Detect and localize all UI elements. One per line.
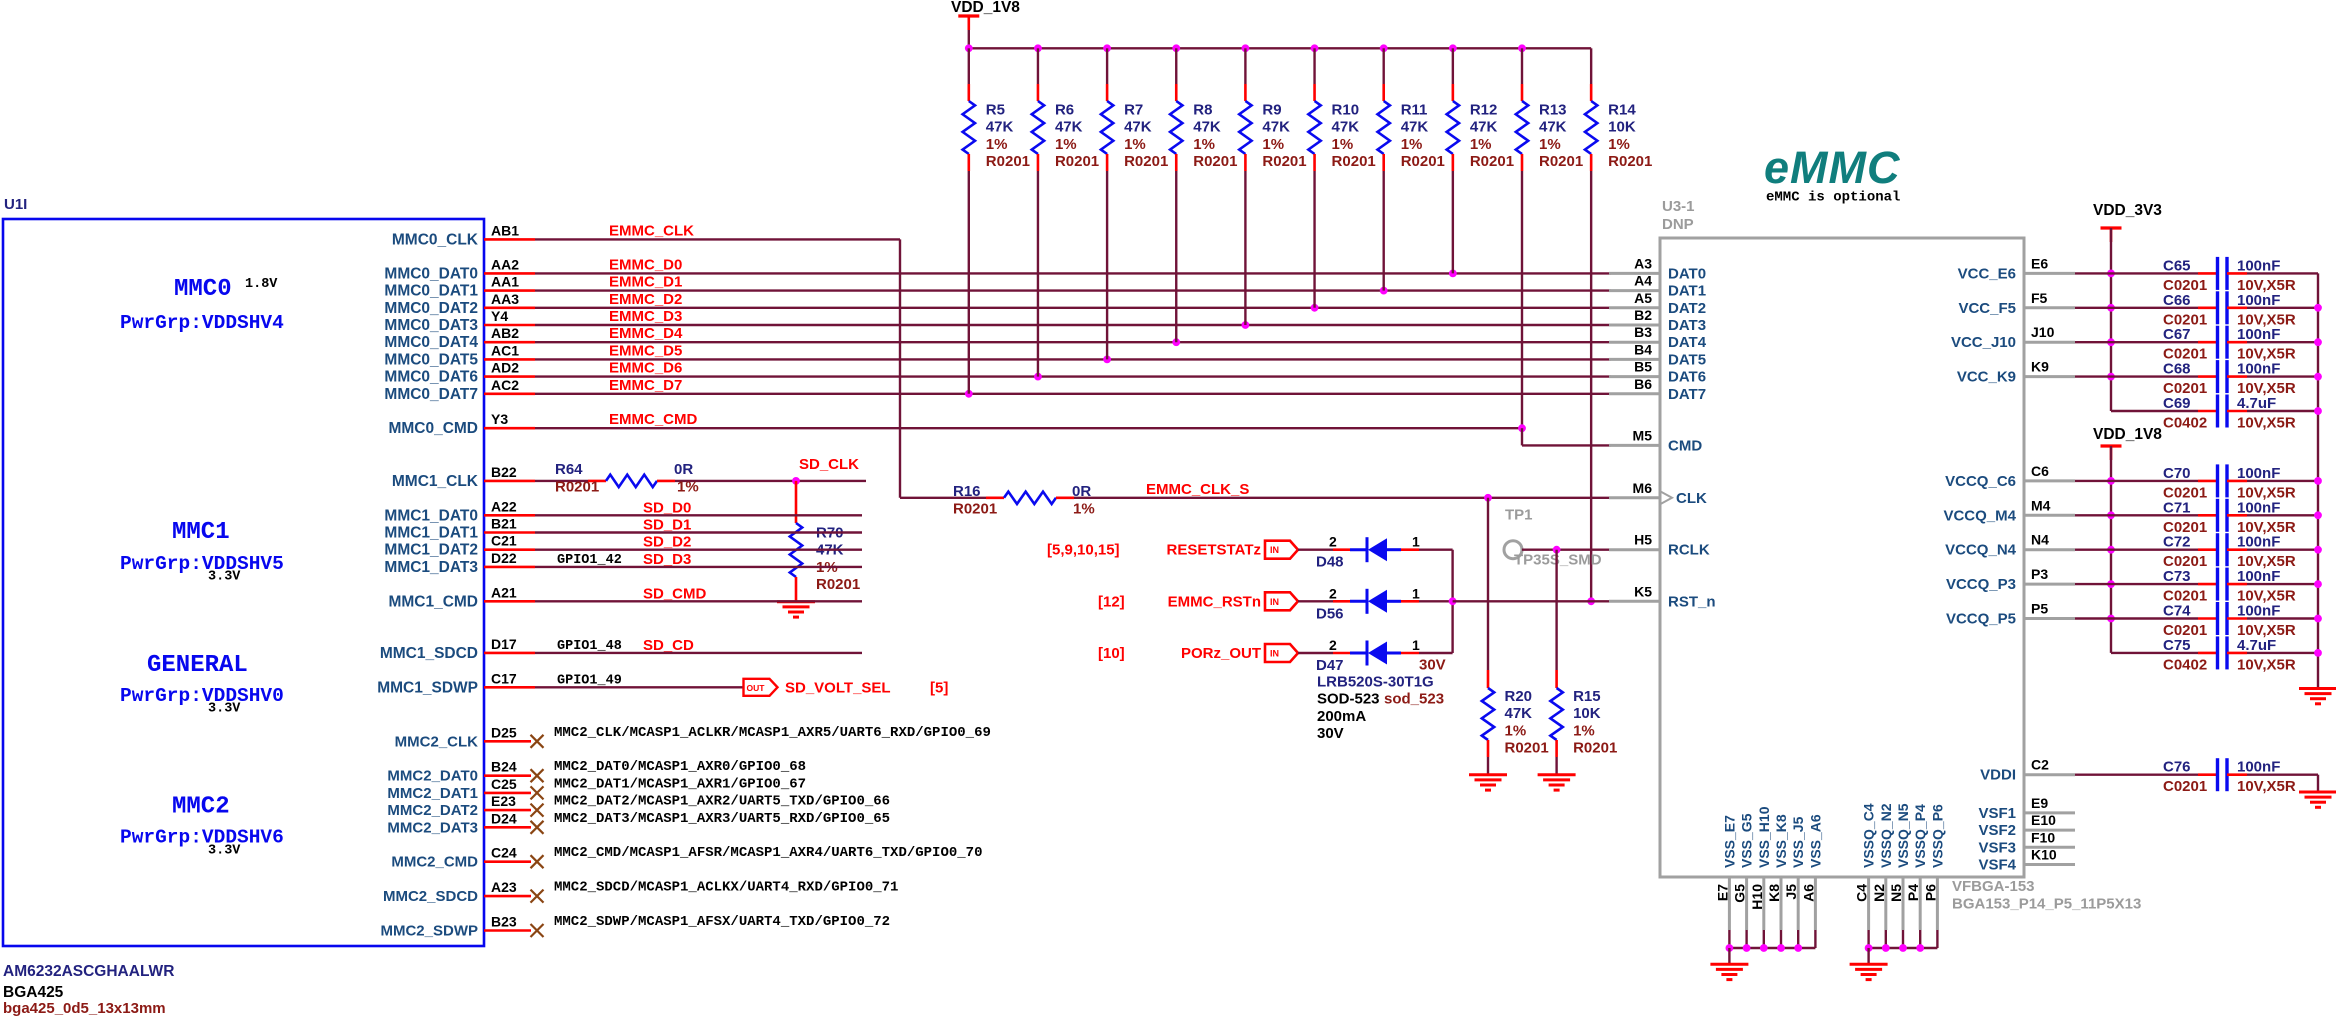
svg-text:MMC1_SDCD: MMC1_SDCD — [380, 645, 478, 662]
resistor R15 body — [1550, 688, 1562, 740]
svg-text:10V,X5R: 10V,X5R — [2237, 778, 2296, 795]
resistor R8 upper lead — [1175, 48, 1177, 84]
wire VDDI to C76 — [2075, 774, 2198, 776]
junction VDD_1V8 bus at C72 — [2107, 546, 2115, 554]
svg-text:MMC1: MMC1 — [172, 519, 230, 546]
wire pin to C73 — [2075, 583, 2111, 585]
U3 pin M6 CLK stub — [1609, 496, 1660, 499]
capacitor C72 — [2216, 533, 2219, 566]
no-connect X on MMC2_D0 — [531, 769, 544, 782]
junction VDD rail at R5 — [965, 44, 973, 52]
capacitor C67 — [2216, 326, 2219, 359]
no-connect X on MMC2_D3 — [531, 821, 544, 834]
svg-text:DAT0: DAT0 — [1668, 265, 1706, 282]
wire bus to capacitor C70 — [2111, 480, 2198, 482]
capacitor C72 right lead — [2227, 548, 2247, 551]
resistor R14 lower lead — [1590, 154, 1593, 171]
resistor R64 left lead — [588, 480, 606, 483]
wire pin to C67 — [2075, 341, 2111, 343]
svg-text:1%: 1% — [1539, 136, 1561, 153]
svg-text:R6: R6 — [1055, 102, 1074, 119]
resistor R10 lower lead — [1313, 154, 1316, 171]
junction EMMC_D3 to pull-up — [1242, 321, 1250, 329]
U3 pin B4 DAT5 stub — [1609, 358, 1660, 361]
svg-text:100nF: 100nF — [2237, 292, 2280, 309]
ground for VSS pins — [1710, 963, 1748, 966]
svg-text:RST_n: RST_n — [1668, 593, 1716, 610]
U3 pin E7 VSS_E7 stub — [1728, 877, 1731, 930]
svg-text:R5: R5 — [986, 102, 1005, 119]
wire EMMC_D7 — [535, 393, 1611, 395]
svg-text:PwrGrp:VDDSHV5: PwrGrp:VDDSHV5 — [120, 553, 284, 575]
U1 pin AC2 MMC0_DAT7 stub — [484, 392, 535, 395]
svg-text:1%: 1% — [1608, 136, 1630, 153]
svg-text:SD_CLK: SD_CLK — [799, 456, 859, 473]
svg-text:F10: F10 — [2031, 829, 2055, 845]
junction ground bus — [2314, 338, 2322, 346]
svg-text:CMD: CMD — [1668, 437, 1702, 454]
svg-text:VCC_K9: VCC_K9 — [1957, 369, 2016, 386]
svg-text:C0402: C0402 — [2163, 656, 2207, 673]
resistor R9 body — [1239, 101, 1251, 154]
svg-text:eMMC: eMMC — [1764, 142, 1901, 193]
capacitor C68 right lead — [2227, 375, 2247, 378]
junction SD_CLK at R70 — [792, 477, 800, 485]
resistor R7 body — [1101, 101, 1113, 154]
svg-text:B24: B24 — [491, 759, 517, 775]
svg-text:E6: E6 — [2031, 255, 2048, 271]
wire EMMC_CLK horizontal — [535, 238, 900, 240]
junction VSS bus — [1760, 944, 1768, 952]
svg-text:AD2: AD2 — [491, 360, 519, 376]
diode D47 cathode wire — [1401, 652, 1419, 655]
svg-text:1: 1 — [1412, 534, 1420, 550]
U1 pin C21 MMC1_DAT2 stub — [484, 548, 535, 551]
capacitor C70 right lead — [2227, 480, 2247, 483]
junction EMMC_D6 to pull-up — [1034, 373, 1042, 381]
junction ground bus — [2314, 615, 2322, 623]
wire VSSQ bus to ground — [1867, 948, 1869, 964]
U1 pin C24 MMC2_CMD stub — [484, 860, 531, 863]
U1 pin A21 MMC1_CMD stub — [484, 600, 535, 603]
wire pin to C72 — [2075, 549, 2111, 551]
svg-text:C65: C65 — [2163, 257, 2191, 274]
wire diode cathode bus vertical — [1451, 550, 1453, 653]
wire SD_CMD — [535, 600, 862, 602]
svg-text:1%: 1% — [1193, 136, 1215, 153]
svg-text:AA1: AA1 — [491, 274, 519, 290]
wire SD_D1 — [535, 531, 862, 533]
U3 pin E9 VSF1 stub — [2024, 811, 2075, 814]
svg-text:CLK: CLK — [1676, 490, 1707, 507]
U3 pin P5 VCCQ_P5 stub — [2024, 617, 2075, 620]
svg-text:100nF: 100nF — [2237, 326, 2280, 343]
svg-text:TP1: TP1 — [1505, 506, 1533, 523]
svg-text:R7: R7 — [1124, 102, 1143, 119]
ground below C76 — [2299, 791, 2336, 794]
wire VDD_1V8 rail — [969, 47, 1591, 49]
U3 pin C2 VDDI stub — [2024, 773, 2075, 776]
capacitor C68 — [2216, 360, 2219, 393]
wire EMMC_D1 — [535, 289, 1611, 291]
svg-text:30V: 30V — [1419, 657, 1446, 674]
svg-text:MMC2_DAT0: MMC2_DAT0 — [387, 768, 478, 785]
svg-text:47K: 47K — [1262, 119, 1290, 136]
svg-text:H10: H10 — [1749, 884, 1765, 910]
junction EMMC_D1 to pull-up — [1380, 287, 1388, 295]
svg-text:100nF: 100nF — [2237, 499, 2280, 516]
svg-text:EMMC_CLK: EMMC_CLK — [609, 222, 694, 239]
svg-text:N4: N4 — [2031, 532, 2049, 548]
wire R13 to M5 pin — [1521, 428, 1523, 445]
U3 pin P3 VCCQ_P3 stub — [2024, 583, 2075, 586]
wire SD_CD — [535, 652, 862, 654]
svg-text:10K: 10K — [1573, 705, 1601, 722]
port SD_VOLT_SEL (OUT) — [744, 679, 778, 696]
port D47 input flag — [1265, 644, 1298, 662]
svg-text:EMMC_D3: EMMC_D3 — [609, 308, 682, 325]
svg-text:LRB520S-30T1G: LRB520S-30T1G — [1317, 674, 1434, 691]
resistor R13 lower lead — [1521, 154, 1524, 171]
junction VDD rail at R8 — [1172, 44, 1180, 52]
U3 pin A3 DAT0 stub — [1609, 272, 1660, 275]
resistor R7 lower lead — [1106, 154, 1109, 171]
svg-text:VSF2: VSF2 — [1978, 822, 2016, 839]
svg-text:K9: K9 — [2031, 359, 2049, 375]
svg-text:1%: 1% — [1573, 722, 1595, 739]
svg-text:DAT6: DAT6 — [1668, 369, 1706, 386]
resistor R64 right lead — [657, 480, 675, 483]
svg-text:[10]: [10] — [1098, 645, 1125, 662]
junction VDD_3V3 bus at C67 — [2107, 338, 2115, 346]
junction ground bus — [2314, 649, 2322, 657]
junction EMMC_D0 to pull-up — [1449, 270, 1457, 278]
svg-text:E7: E7 — [1714, 884, 1730, 901]
svg-text:R0201: R0201 — [1608, 153, 1652, 170]
VDD_3V3 vertical bus — [2110, 273, 2112, 411]
wire bus to capacitor C72 — [2111, 549, 2198, 551]
no-connect X on MMC2_CLK — [531, 735, 544, 748]
wire pin to C74 — [2075, 617, 2111, 619]
svg-text:C6: C6 — [2031, 463, 2049, 479]
svg-text:SD_CMD: SD_CMD — [643, 585, 707, 602]
svg-text:100nF: 100nF — [2237, 759, 2280, 776]
resistor R12 upper lead — [1452, 48, 1454, 84]
U1 pin A22 MMC1_DAT0 stub — [484, 514, 535, 517]
svg-text:200mA: 200mA — [1317, 708, 1366, 725]
svg-text:MMC0_DAT6: MMC0_DAT6 — [384, 369, 478, 386]
resistor R12 body — [1447, 101, 1459, 154]
resistor R7 upper lead — [1106, 48, 1108, 84]
svg-text:R0201: R0201 — [1573, 740, 1617, 757]
svg-text:VSSQ_P6: VSSQ_P6 — [1929, 804, 1945, 868]
svg-text:MMC1_CMD: MMC1_CMD — [388, 593, 478, 610]
wire EMMC_D2 — [535, 307, 1611, 309]
right ground return bus — [2317, 273, 2319, 688]
resistor R70 lower lead — [795, 577, 798, 601]
wire MMC1_SDWP to OUT port — [535, 686, 744, 688]
U1 pin C17 MMC1_SDWP stub — [484, 686, 535, 689]
U3 pin P4 VSSQ_P4 stub — [1919, 877, 1922, 930]
svg-text:DAT7: DAT7 — [1668, 386, 1706, 403]
svg-text:30V: 30V — [1317, 725, 1344, 742]
svg-text:1%: 1% — [677, 478, 699, 495]
svg-text:0R: 0R — [1072, 483, 1091, 500]
svg-text:MMC1_SDWP: MMC1_SDWP — [377, 679, 478, 696]
svg-text:A3: A3 — [1634, 255, 1652, 271]
svg-text:R10: R10 — [1332, 102, 1360, 119]
junction EMMC_D7 to pull-up — [965, 390, 973, 398]
svg-text:47K: 47K — [1124, 119, 1152, 136]
resistor R8 lower lead — [1175, 154, 1178, 171]
diode D47 — [1366, 641, 1369, 666]
resistor R11 upper lead — [1382, 48, 1384, 84]
U1 pin AB1 MMC0_CLK stub — [484, 238, 535, 241]
svg-text:VCCQ_M4: VCCQ_M4 — [1943, 507, 2016, 524]
resistor R20 lower lead — [1487, 740, 1490, 757]
svg-text:3.3V: 3.3V — [208, 843, 241, 858]
capacitor C65 — [2216, 257, 2219, 290]
junction ground bus — [2314, 407, 2322, 415]
svg-text:B4: B4 — [1634, 341, 1652, 357]
svg-text:VSS_G5: VSS_G5 — [1739, 813, 1755, 868]
U3 pin K9 VCC_K9 stub — [2024, 375, 2075, 378]
U1 pin AA1 MMC0_DAT1 stub — [484, 289, 535, 292]
resistor R9 lower lead — [1244, 154, 1247, 171]
svg-text:R16: R16 — [953, 483, 981, 500]
capacitor C71 right lead — [2227, 514, 2247, 517]
svg-text:R0201: R0201 — [1401, 153, 1445, 170]
wire VSS bus to ground — [1728, 948, 1730, 964]
svg-text:BGA153_P14_P5_11P5X13: BGA153_P14_P5_11P5X13 — [1952, 896, 2141, 913]
wire EMMC_D3 — [535, 324, 1611, 326]
U3 pin N4 VCCQ_N4 stub — [2024, 548, 2075, 551]
U3 pin C4 VSSQ_C4 stub — [1867, 877, 1870, 930]
svg-text:P4: P4 — [1905, 884, 1921, 901]
svg-text:EMMC_D7: EMMC_D7 — [609, 377, 682, 394]
svg-text:P6: P6 — [1922, 884, 1938, 901]
svg-text:DNP: DNP — [1662, 216, 1694, 233]
svg-text:VSSQ_N5: VSSQ_N5 — [1895, 803, 1911, 868]
svg-text:2: 2 — [1329, 637, 1337, 653]
svg-text:GPIO1_42: GPIO1_42 — [557, 553, 622, 568]
capacitor C73 — [2216, 568, 2219, 601]
VSS ground bus — [1729, 947, 1815, 949]
junction EMMC_D2 to pull-up — [1311, 304, 1319, 312]
U3 pin F10 VSF3 stub — [2024, 846, 2075, 849]
U1 pin AC1 MMC0_DAT5 stub — [484, 358, 535, 361]
svg-text:MMC2_SDWP/MCASP1_AFSX/UART4_TX: MMC2_SDWP/MCASP1_AFSX/UART4_TXD/GPIO0_72 — [554, 914, 890, 930]
junction RCLK at R15 — [1553, 546, 1561, 554]
svg-text:2: 2 — [1329, 534, 1337, 550]
svg-text:47K: 47K — [1539, 119, 1567, 136]
svg-text:E9: E9 — [2031, 795, 2048, 811]
wire R64 to SD_CLK — [675, 480, 866, 482]
resistor R6 upper lead — [1037, 48, 1039, 84]
wire bus to capacitor C71 — [2111, 514, 2198, 516]
diode D48 cathode wire — [1401, 548, 1419, 551]
svg-text:R64: R64 — [555, 461, 583, 478]
wire SD_D3 — [535, 566, 862, 568]
wire bus to capacitor C73 — [2111, 583, 2198, 585]
svg-text:VSSQ_P4: VSSQ_P4 — [1912, 804, 1928, 868]
resistor R6 lower lead — [1037, 154, 1040, 171]
capacitor C75 right lead — [2227, 652, 2247, 655]
svg-text:4.7uF: 4.7uF — [2237, 395, 2276, 412]
resistor R10 upper lead — [1313, 48, 1315, 84]
svg-text:R0201: R0201 — [1505, 740, 1549, 757]
no-connect X on MMC2_CMD — [531, 855, 544, 868]
svg-text:R0201: R0201 — [1470, 153, 1514, 170]
svg-text:2: 2 — [1329, 585, 1337, 601]
svg-text:MMC0_DAT7: MMC0_DAT7 — [384, 386, 478, 403]
svg-text:U1I: U1I — [4, 196, 27, 213]
junction ground bus — [2314, 511, 2322, 519]
resistor R64 body — [606, 475, 657, 487]
wire EMMC_CLK vertical drop to EMMC_CLK_S — [899, 239, 901, 497]
svg-text:D17: D17 — [491, 636, 517, 652]
U1 pin D25 MMC2_CLK stub — [484, 740, 531, 743]
capacitor C75 — [2216, 636, 2219, 669]
svg-text:VSS_E7: VSS_E7 — [1721, 815, 1737, 868]
svg-text:AC1: AC1 — [491, 342, 519, 358]
svg-text:MMC0_DAT3: MMC0_DAT3 — [384, 317, 478, 334]
U3 CLK clock-input triangle — [1661, 492, 1672, 504]
svg-text:R0201: R0201 — [555, 478, 599, 495]
junction EMMC_D4 to pull-up — [1172, 338, 1180, 346]
wire pin to C70 — [2075, 480, 2111, 482]
junction VDD rail at R6 — [1034, 44, 1042, 52]
svg-text:AB2: AB2 — [491, 325, 519, 341]
svg-text:F5: F5 — [2031, 290, 2048, 306]
wire TP1 to RCLK pin — [1522, 549, 1611, 551]
svg-text:IN: IN — [1270, 545, 1279, 555]
svg-text:A6: A6 — [1800, 884, 1816, 902]
U3 pin E10 VSF2 stub — [2024, 829, 2075, 832]
U3 pin K8 VSS_K8 stub — [1780, 877, 1783, 930]
resistor R16 body — [1004, 492, 1056, 504]
svg-text:MMC2_DAT2/MCASP1_AXR2/UART5_TX: MMC2_DAT2/MCASP1_AXR2/UART5_TXD/GPIO0_66 — [554, 794, 890, 810]
svg-text:MMC0_DAT2: MMC0_DAT2 — [384, 300, 478, 317]
svg-text:M5: M5 — [1633, 427, 1653, 443]
svg-text:D47: D47 — [1316, 657, 1344, 674]
svg-text:100nF: 100nF — [2237, 257, 2280, 274]
svg-text:D48: D48 — [1316, 554, 1344, 571]
U3 pin E6 VCC_E6 stub — [2024, 272, 2075, 275]
svg-text:K10: K10 — [2031, 847, 2057, 863]
svg-text:C67: C67 — [2163, 326, 2191, 343]
svg-text:10K: 10K — [1608, 119, 1636, 136]
U1 pin D17 MMC1_SDCD stub — [484, 652, 535, 655]
svg-text:AM6232ASCGHAALWR: AM6232ASCGHAALWR — [3, 963, 174, 980]
svg-text:AA2: AA2 — [491, 256, 519, 272]
svg-text:B22: B22 — [491, 464, 517, 480]
svg-text:C72: C72 — [2163, 534, 2191, 551]
junction VDD_1V8 bus at C70 — [2107, 477, 2115, 485]
svg-text:10V,X5R: 10V,X5R — [2237, 656, 2296, 673]
resistor R15 upper lead — [1555, 550, 1557, 670]
svg-text:C76: C76 — [2163, 759, 2191, 776]
svg-text:D22: D22 — [491, 550, 517, 566]
svg-text:D25: D25 — [491, 724, 517, 740]
svg-text:EMMC_D5: EMMC_D5 — [609, 342, 682, 359]
svg-text:SD_VOLT_SEL: SD_VOLT_SEL — [785, 679, 891, 696]
svg-text:DAT2: DAT2 — [1668, 300, 1706, 317]
junction VDD_3V3 bus at C68 — [2107, 373, 2115, 381]
svg-text:1%: 1% — [1401, 136, 1423, 153]
svg-text:EMMC_CMD: EMMC_CMD — [609, 411, 697, 428]
svg-text:VCC_F5: VCC_F5 — [1958, 300, 2016, 317]
junction VSS bus — [1726, 944, 1734, 952]
svg-text:VSS_H10: VSS_H10 — [1756, 806, 1772, 868]
wire bus to capacitor C66 — [2111, 307, 2198, 309]
wire RST_n to K5 pin — [1453, 600, 1611, 602]
wire bus to capacitor C67 — [2111, 341, 2198, 343]
svg-text:3.3V: 3.3V — [208, 702, 241, 717]
svg-text:R20: R20 — [1505, 688, 1533, 705]
svg-text:B3: B3 — [1634, 324, 1652, 340]
U1 pin Y3 MMC0_CMD stub — [484, 427, 535, 430]
U3 pin A5 DAT2 stub — [1609, 306, 1660, 309]
U3 pin B5 DAT6 stub — [1609, 375, 1660, 378]
svg-text:MMC2_SDWP: MMC2_SDWP — [380, 923, 478, 940]
svg-text:H5: H5 — [1634, 532, 1652, 548]
svg-text:MMC0: MMC0 — [174, 276, 232, 303]
capacitor C66 right lead — [2227, 306, 2247, 309]
svg-text:47K: 47K — [1193, 119, 1221, 136]
svg-text:R0201: R0201 — [1262, 153, 1306, 170]
U1 pin C25 MMC2_DAT1 stub — [484, 792, 531, 795]
capacitor C70 — [2216, 464, 2219, 497]
svg-text:100nF: 100nF — [2237, 534, 2280, 551]
svg-text:SD_D2: SD_D2 — [643, 534, 691, 551]
svg-text:C21: C21 — [491, 533, 517, 549]
wire pin to C71 — [2075, 514, 2111, 516]
resistor R6 body — [1032, 101, 1044, 154]
svg-text:1.8V: 1.8V — [245, 277, 278, 292]
svg-text:RCLK: RCLK — [1668, 542, 1710, 559]
capacitor C76 right lead — [2227, 773, 2247, 776]
wire EMMC_CLK_S to CLK pin — [1074, 497, 1611, 499]
svg-text:MMC2_CLK/MCASP1_ACLKR/MCASP1_A: MMC2_CLK/MCASP1_ACLKR/MCASP1_AXR5/UART6_… — [554, 725, 991, 741]
svg-text:VSF4: VSF4 — [1978, 857, 2016, 874]
svg-text:B2: B2 — [1634, 307, 1652, 323]
svg-text:C73: C73 — [2163, 568, 2191, 585]
ground below R70 — [777, 600, 815, 603]
svg-text:DAT5: DAT5 — [1668, 351, 1706, 368]
svg-text:C71: C71 — [2163, 499, 2191, 516]
U3 pin B6 DAT7 stub — [1609, 392, 1660, 395]
junction VDD_3V3 bus at C66 — [2107, 304, 2115, 312]
ground below R20 — [1469, 773, 1507, 776]
svg-text:1%: 1% — [986, 136, 1008, 153]
svg-text:GPIO1_48: GPIO1_48 — [557, 639, 622, 654]
svg-text:DAT1: DAT1 — [1668, 283, 1706, 300]
resistor R70 upper lead — [795, 481, 798, 523]
svg-text:TP35S_SMD: TP35S_SMD — [1514, 551, 1602, 568]
svg-text:R0201: R0201 — [1193, 153, 1237, 170]
resistor R12 lower lead — [1452, 154, 1455, 171]
wire port to diode D56 — [1298, 600, 1333, 602]
svg-text:A23: A23 — [491, 879, 517, 895]
junction VSSQ bus — [1916, 944, 1924, 952]
wire C76 to ground — [2317, 775, 2319, 791]
svg-text:1%: 1% — [1262, 136, 1284, 153]
ground for capacitor bank — [2299, 687, 2336, 690]
svg-text:100nF: 100nF — [2237, 568, 2280, 585]
svg-text:VDDI: VDDI — [1980, 767, 2016, 784]
svg-text:SD_D3: SD_D3 — [643, 551, 691, 568]
